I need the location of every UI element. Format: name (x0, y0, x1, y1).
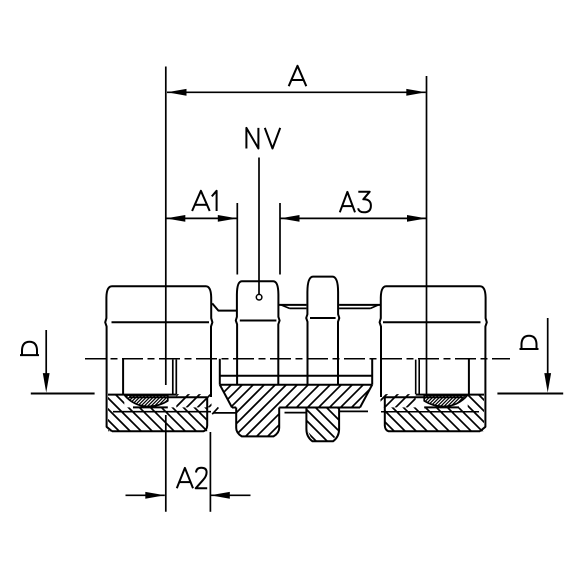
extension line left (A/A1/A2) (165, 67, 167, 386)
section: right cone diagonal (360, 385, 372, 408)
section: body OD vertical left (219, 359, 221, 385)
left nut hex flat line (112, 321, 210, 323)
section: bore line (220, 375, 372, 377)
section: left cone diagonal (220, 385, 232, 408)
D arrow right (547, 318, 549, 378)
right nut hex flat line (383, 321, 481, 323)
line under right ferrule (424, 406, 459, 408)
left counterbore wall (122, 359, 124, 395)
body hex lower-half (section) outline (306, 408, 339, 442)
dimension A line (167, 91, 426, 93)
locknut hex flat line (240, 320, 277, 322)
right tube end face pair (418, 360, 420, 395)
left nut thread minor line (113, 411, 211, 413)
extension line right (A/A3) (426, 76, 428, 395)
D arrow left (45, 330, 47, 378)
right counterbore wall (468, 359, 470, 395)
section: body OD vertical right (371, 359, 373, 385)
left nut mirrored hex/bore line (108, 394, 176, 396)
bulkhead locknut NV outline (237, 281, 279, 294)
coupling body section hatch (45 deg, body + bulkhead locknut lower half + seat noses) (105, 380, 544, 445)
left union nut outline (external view top / section bottom) (106, 286, 211, 297)
A1 right extension line (236, 203, 238, 275)
bulkhead thread locknut-to-hex (crest/root/runout) (279, 304, 307, 306)
label NV (246, 128, 258, 149)
union nuts + hex lower-half section hatch (opposite 45 deg) (45, 390, 577, 445)
body shank between left nut and locknut (212, 303, 236, 310)
right union nut outline (381, 286, 486, 297)
left nut bore step line (129, 396, 207, 398)
locknut lower-half (section) outline (236, 408, 279, 437)
A2 right extension line (209, 432, 211, 512)
body hex flat line (310, 317, 336, 319)
cutting ring (ferrule) dense hatch right (404, 393, 502, 409)
label A1 (192, 191, 210, 211)
right nut bore step line (385, 396, 463, 398)
NV leader line (258, 158, 260, 295)
left ferrule outline (125, 395, 168, 406)
right nut mirrored hex/bore line (416, 394, 484, 396)
section: counterbore line (220, 384, 372, 386)
section: thread crest mirror segments (285, 412, 307, 414)
cutting ring (ferrule) dense hatch left (104, 393, 202, 409)
right nut thread minor line (381, 411, 479, 413)
label D right (rotated) (520, 348, 539, 350)
tube OD reference line left (31, 393, 95, 395)
dimension A3 line (280, 217, 427, 219)
left tube end face pair (172, 360, 174, 395)
dimension A2 lines and arrows (126, 494, 165, 496)
label A (289, 66, 307, 86)
line under left ferrule (133, 406, 168, 408)
NV leader dot (256, 294, 262, 300)
label A2 (177, 468, 193, 488)
label A3 (340, 192, 355, 212)
section: band bottom segments (232, 407, 236, 409)
tube OD reference line right (497, 393, 563, 395)
A3 left extension line (279, 203, 281, 275)
body hex outline (307, 277, 338, 292)
dimension A1 line (166, 217, 238, 219)
right ferrule outline (424, 395, 467, 406)
thread hex-to-right-nut (crest/root/runout) (339, 304, 381, 306)
centerline (dash-dot axis) (85, 358, 510, 360)
label D left (rotated) (20, 354, 39, 356)
